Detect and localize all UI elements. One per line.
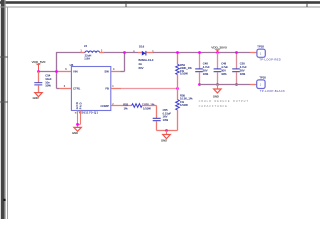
svg-text:R55: R55 bbox=[123, 102, 128, 106]
svg-text:GND: GND bbox=[161, 138, 167, 142]
svg-text:10%: 10% bbox=[163, 118, 169, 122]
node IC gnd junction bbox=[76, 123, 79, 126]
svg-text:VDD_30V0: VDD_30V0 bbox=[211, 46, 227, 50]
svg-text:TP-LOOP-RED: TP-LOOP-RED bbox=[259, 58, 281, 62]
ground under caps bbox=[213, 85, 221, 99]
svg-text:COMP: COMP bbox=[100, 104, 109, 108]
note text bbox=[199, 100, 249, 108]
svg-text:VDD_5V0: VDD_5V0 bbox=[32, 60, 46, 64]
svg-text:TP18: TP18 bbox=[257, 45, 264, 49]
wire L5 pin2 stub bbox=[99, 52, 104, 54]
sheet border left bar bbox=[1, 0, 5, 219]
svg-text:GND: GND bbox=[75, 101, 79, 109]
wire diode anode stub bbox=[138, 52, 142, 54]
svg-text:VIN: VIN bbox=[73, 69, 78, 73]
wire comp ground run bbox=[157, 130, 178, 132]
wire stub to TP20 bbox=[250, 84, 257, 86]
svg-text:10%: 10% bbox=[240, 72, 246, 76]
svg-text:A: A bbox=[133, 49, 135, 53]
node R54 top junction bbox=[176, 51, 179, 54]
zone tick left at y=57 bbox=[0, 56, 8, 58]
svg-text:C50: C50 bbox=[240, 62, 245, 66]
capacitor C48 bbox=[195, 53, 210, 85]
wire L5 pin1 stub bbox=[81, 52, 85, 54]
resistor R55 bbox=[123, 102, 155, 110]
svg-text:1%: 1% bbox=[124, 107, 128, 111]
capacitor C50 bbox=[232, 53, 247, 85]
sheet inner frame line horizontal bbox=[0, 6, 320, 8]
sheet inner frame line vertical bbox=[7, 7, 9, 219]
zone tick top at x=301 bbox=[306, 1, 308, 7]
svg-text:C48: C48 bbox=[203, 62, 208, 66]
power flag VDD_5V0 bbox=[32, 60, 46, 72]
svg-text:1.8A: 1.8A bbox=[84, 57, 90, 61]
svg-text:50V: 50V bbox=[240, 69, 245, 73]
testpoint TP20 bbox=[257, 75, 285, 93]
svg-text:U6: U6 bbox=[70, 63, 74, 67]
wire CTRL corner bbox=[57, 88, 60, 90]
svg-text:SW: SW bbox=[104, 69, 109, 73]
node VIN junction bbox=[37, 70, 40, 73]
wire COMP to C55 bbox=[142, 106, 157, 119]
power flag VDD_30V0 bbox=[211, 46, 227, 53]
svg-text:10%: 10% bbox=[221, 72, 227, 76]
svg-text:FB: FB bbox=[105, 87, 109, 91]
svg-text:C49: C49 bbox=[221, 62, 226, 66]
svg-text:1/10W: 1/10W bbox=[143, 107, 151, 111]
zone tick top at x=126 bbox=[125, 1, 127, 7]
node comp gnd junction bbox=[165, 129, 168, 132]
svg-text:GND: GND bbox=[72, 131, 78, 135]
diode D16 bbox=[133, 45, 154, 70]
capacitor C54 bbox=[34, 72, 52, 93]
svg-text:PAD: PAD bbox=[79, 102, 83, 110]
sheet border top bar bbox=[0, 1, 320, 4]
svg-text:COULD REDUCE OUTPUT: COULD REDUCE OUTPUT bbox=[199, 100, 249, 103]
registration dot left border bbox=[3, 199, 5, 201]
wire diode cathode stub bbox=[146, 52, 153, 54]
ground under C54 bbox=[33, 93, 43, 100]
wire top rail output (purple net) bbox=[153, 52, 250, 54]
wire top rail left purple bbox=[56, 52, 81, 54]
svg-text:1/10W: 1/10W bbox=[180, 72, 188, 76]
node CTRL junction bbox=[55, 70, 58, 73]
resistor R54 bbox=[176, 53, 193, 89]
node SW junction bbox=[123, 51, 126, 54]
node C49 bottom junction bbox=[216, 83, 219, 86]
node C50 top junction bbox=[235, 51, 238, 54]
node VDD_30V0 junction bbox=[216, 51, 219, 54]
resistor R56 bbox=[176, 89, 193, 131]
svg-text:GND: GND bbox=[33, 96, 39, 100]
op IC U6 TPS61170-Q1 bbox=[64, 63, 115, 115]
wire bottom rail (purple net) bbox=[200, 84, 251, 86]
wire FB run bbox=[121, 88, 178, 90]
wire FB stub bbox=[111, 88, 121, 90]
testpoint TP18 bbox=[257, 45, 281, 62]
wire IC ground pins bbox=[78, 111, 81, 128]
node C48 top junction bbox=[198, 51, 201, 54]
zone tick left at y=102 bbox=[0, 101, 8, 103]
svg-text:60V: 60V bbox=[139, 66, 144, 70]
wire stub to TP18 bbox=[250, 52, 257, 54]
svg-text:D16: D16 bbox=[139, 45, 145, 49]
svg-text:50V: 50V bbox=[221, 69, 226, 73]
svg-text:TP-LOOP-BLACK: TP-LOOP-BLACK bbox=[260, 89, 285, 93]
inductor L5 bbox=[80, 44, 103, 61]
capacitor C55 bbox=[153, 108, 172, 131]
svg-text:TP20: TP20 bbox=[259, 75, 266, 79]
svg-text:L5: L5 bbox=[84, 44, 88, 48]
svg-text:GND: GND bbox=[213, 94, 219, 98]
wire vertical VIN-to-top bbox=[56, 53, 58, 89]
ground under U6 bbox=[72, 127, 81, 135]
svg-text:CTRL: CTRL bbox=[73, 87, 81, 91]
svg-text:4.7uF: 4.7uF bbox=[221, 65, 228, 69]
node C48 bottom junction bbox=[198, 83, 201, 86]
svg-text:1/10W: 1/10W bbox=[180, 103, 188, 107]
wire COMP bbox=[111, 105, 132, 107]
svg-text:4.7uF: 4.7uF bbox=[203, 65, 210, 69]
node FB junction bbox=[176, 87, 179, 90]
svg-text:10%: 10% bbox=[45, 84, 51, 88]
wire SW node rail purple bbox=[104, 52, 138, 54]
wire VIN rail (purple segment) bbox=[39, 71, 57, 73]
svg-text:10%: 10% bbox=[203, 72, 209, 76]
svg-text:CAPACITANCE: CAPACITANCE bbox=[199, 105, 228, 108]
ground under C55 bbox=[161, 131, 170, 143]
wire SW to top rail bbox=[111, 53, 125, 72]
wire VIN rail (salmon segment) bbox=[57, 71, 72, 73]
wire CTRL bbox=[59, 88, 71, 90]
node C50 bottom junction bbox=[235, 83, 238, 86]
capacitor C49 bbox=[214, 53, 229, 85]
svg-text:50V: 50V bbox=[203, 69, 208, 73]
svg-text:4.7uF: 4.7uF bbox=[240, 65, 247, 69]
